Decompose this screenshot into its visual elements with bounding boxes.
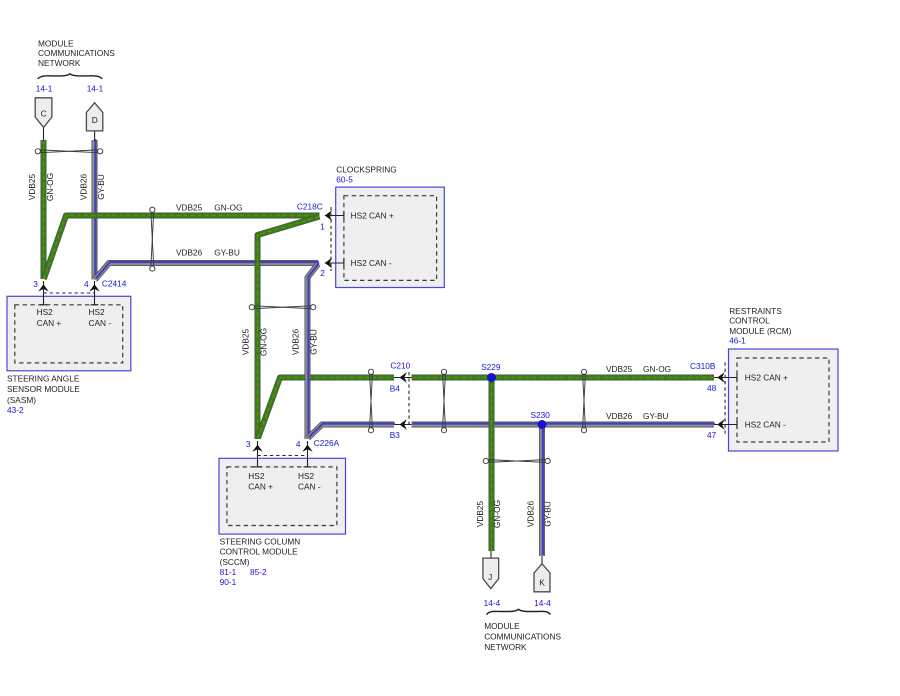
svg-text:C218C: C218C (297, 201, 323, 211)
svg-text:(SCCM): (SCCM) (220, 557, 250, 567)
svg-text:GN-OG: GN-OG (643, 364, 671, 374)
top caption module communications network (38, 39, 115, 69)
svg-text:GY-BU: GY-BU (214, 247, 240, 257)
svg-text:GN-OG: GN-OG (492, 500, 502, 528)
wire VDB26 GY-BU from SCCM pin 4 to C210 pin B3 (308, 424, 395, 438)
wire label VDB25 GN-OG horizontal to RCM (606, 364, 671, 374)
svg-text:HS2 CAN +: HS2 CAN + (351, 210, 394, 220)
module box SASM (7, 296, 131, 371)
svg-text:1: 1 (320, 222, 325, 232)
svg-text:VDB25: VDB25 (606, 364, 633, 374)
wire VDB25 GN-OG from SCCM pin 3 to C210 pin B4 (258, 378, 394, 439)
CLOCKSPRING caption (336, 165, 396, 185)
in-line connector C210 dashed link and label (390, 361, 410, 428)
connector C2414 pin 4 (84, 279, 100, 305)
connector C2414 dashed link and label (44, 278, 127, 293)
RCM caption (729, 306, 791, 346)
wire label VDB26 GY-BU horizontal to RCM (606, 411, 669, 421)
svg-text:C310B: C310B (690, 361, 716, 371)
SCCM caption (220, 537, 301, 587)
connector C218C dashed link and label (297, 201, 331, 271)
svg-text:GN-OG: GN-OG (214, 202, 242, 212)
wire label VDB26 GY-BU vertical to K (525, 500, 552, 527)
svg-text:14-4: 14-4 (484, 598, 501, 608)
svg-text:SENSOR MODULE: SENSOR MODULE (7, 384, 80, 394)
twisted pair symbol left of C210 (368, 369, 373, 433)
svg-text:(SASM): (SASM) (7, 395, 36, 405)
connector C226A dashed link and label (258, 438, 340, 455)
svg-text:C226A: C226A (314, 438, 340, 448)
svg-text:HS2 CAN -: HS2 CAN - (745, 419, 786, 429)
svg-text:C: C (41, 109, 47, 119)
svg-text:B4: B4 (390, 383, 401, 393)
module box SCCM (219, 458, 346, 534)
svg-text:14-4: 14-4 (534, 598, 551, 608)
in-line connector C210 pin B3 (390, 419, 412, 440)
wire label VDB26 GY-BU vertical to SCCM (291, 328, 319, 355)
svg-text:K: K (539, 578, 545, 588)
svg-text:J: J (488, 572, 492, 582)
svg-text:3: 3 (33, 279, 38, 289)
wire label VDB25 GN-OG horizontal to clockspring (176, 202, 242, 212)
svg-text:VDB25: VDB25 (27, 173, 37, 200)
connector J (to module communications network) (483, 551, 501, 608)
svg-text:GN-OG: GN-OG (259, 328, 269, 356)
wire VDB26 GY-BU from connector D to SASM pin 4 (94, 139, 97, 279)
svg-text:43-2: 43-2 (7, 405, 24, 415)
twisted pair symbol on drops to J and K (483, 458, 550, 463)
svg-text:VDB26: VDB26 (291, 328, 301, 355)
svg-text:MODULE: MODULE (38, 39, 74, 49)
svg-text:VDB26: VDB26 (78, 173, 88, 200)
svg-text:CAN +: CAN + (248, 481, 273, 491)
connector C310B pin 48 (707, 372, 737, 393)
svg-text:CONTROL MODULE: CONTROL MODULE (220, 547, 299, 557)
svg-text:14-1: 14-1 (36, 83, 53, 93)
svg-text:MODULE (RCM): MODULE (RCM) (729, 326, 791, 336)
svg-text:CAN -: CAN - (298, 481, 321, 491)
svg-text:HS2 CAN -: HS2 CAN - (351, 258, 392, 268)
wire VDB26 GY-BU from splice S230 down to connector K (541, 424, 544, 556)
svg-text:VDB25: VDB25 (475, 500, 485, 527)
svg-text:GY-BU: GY-BU (643, 411, 669, 421)
svg-text:CAN +: CAN + (37, 318, 62, 328)
svg-text:GN-OG: GN-OG (45, 173, 55, 201)
wire label VDB26 GY-BU horizontal to clockspring (176, 247, 240, 257)
svg-text:VDB26: VDB26 (606, 411, 633, 421)
svg-text:COMMUNICATIONS: COMMUNICATIONS (38, 48, 115, 58)
svg-text:VDB26: VDB26 (176, 247, 203, 257)
svg-text:COMMUNICATIONS: COMMUNICATIONS (484, 631, 561, 641)
svg-text:HS2: HS2 (37, 307, 54, 317)
brace under J and K (487, 609, 551, 614)
twisted pair symbol left horizontal runs (150, 207, 155, 271)
svg-text:14-1: 14-1 (87, 83, 104, 93)
svg-text:HS2 CAN +: HS2 CAN + (745, 372, 788, 382)
wire VDB25 GN-OG from SASM pin 3 to clockspring C218C pin 1 (44, 216, 320, 280)
twisted pair symbol between C210 and S229 (441, 369, 446, 433)
svg-text:48: 48 (707, 383, 717, 393)
svg-text:CLOCKSPRING: CLOCKSPRING (336, 165, 396, 175)
module box RCM (729, 349, 839, 451)
svg-text:VDB25: VDB25 (241, 328, 251, 355)
svg-text:2: 2 (320, 268, 325, 278)
twisted pair symbol top left (35, 149, 103, 154)
svg-text:GY-BU: GY-BU (309, 329, 319, 355)
svg-text:D: D (92, 115, 98, 125)
connector C310B pin 47 (707, 419, 737, 440)
connector D (to module communications network) (86, 83, 103, 141)
svg-text:STEERING COLUMN: STEERING COLUMN (220, 537, 301, 547)
svg-text:STEERING ANGLE: STEERING ANGLE (7, 374, 80, 384)
in-line connector C210 pin B4 (390, 372, 412, 393)
wire VDB25 GN-OG from splice S229 down to connector J (491, 378, 493, 552)
wire VDB25 GN-OG from C218C pin 1 down to SCCM pin 3 (258, 217, 320, 440)
wire label VDB25 GN-OG vertical at C (27, 173, 55, 201)
wire label VDB26 GY-BU vertical at D (78, 173, 106, 200)
svg-text:C2414: C2414 (102, 278, 127, 288)
wire VDB25 GN-OG from C210 pin B4 to RCM C310B pin 48 (412, 377, 715, 379)
svg-text:MODULE: MODULE (484, 621, 520, 631)
connector C (to module communications network) (35, 83, 53, 141)
svg-text:CAN -: CAN - (89, 318, 112, 328)
svg-text:NETWORK: NETWORK (484, 642, 527, 652)
brace over C and D (38, 74, 103, 79)
splice S230 (531, 410, 551, 429)
twisted pair symbol between splices and RCM (581, 369, 586, 433)
svg-text:HS2: HS2 (298, 471, 315, 481)
svg-text:46-1: 46-1 (729, 336, 746, 346)
svg-text:S229: S229 (481, 362, 501, 372)
svg-text:RESTRAINTS: RESTRAINTS (729, 306, 782, 316)
svg-text:NETWORK: NETWORK (38, 58, 81, 68)
connector C2414 pin 3 (33, 279, 48, 305)
wire VDB26 GY-BU from C210 pin B3 to RCM C310B pin 47 (412, 423, 715, 426)
connector C310B dashed link and label (690, 361, 725, 434)
SASM caption (7, 374, 80, 416)
svg-text:47: 47 (707, 430, 717, 440)
bottom caption module communications network (484, 621, 561, 652)
svg-text:CONTROL: CONTROL (729, 316, 770, 326)
svg-text:4: 4 (296, 439, 301, 449)
svg-text:4: 4 (84, 279, 89, 289)
wire VDB26 GY-BU from SASM pin 4 to clockspring C218C pin 2 (95, 262, 319, 279)
wire VDB25 GN-OG from connector C to SASM pin 3 (43, 140, 45, 279)
svg-text:B3: B3 (390, 430, 401, 440)
svg-text:85-2: 85-2 (250, 567, 267, 577)
module box CLOCKSPRING (336, 187, 445, 287)
svg-text:C210: C210 (390, 361, 410, 371)
svg-text:HS2: HS2 (248, 471, 265, 481)
svg-text:S230: S230 (531, 410, 551, 420)
svg-text:GY-BU: GY-BU (96, 174, 106, 200)
twisted pair symbol on SCCM drop wires (249, 305, 316, 310)
wire VDB26 GY-BU from C218C pin 2 down to SCCM pin 4 (308, 263, 319, 439)
svg-text:HS2: HS2 (89, 307, 106, 317)
connector C226A pin 4 (296, 439, 313, 467)
splice S229 (481, 362, 501, 382)
svg-text:3: 3 (246, 439, 251, 449)
wire label VDB25 GN-OG vertical to SCCM (241, 328, 269, 356)
svg-text:60-5: 60-5 (336, 174, 353, 184)
svg-text:GY-BU: GY-BU (543, 501, 553, 527)
svg-text:90-1: 90-1 (220, 577, 237, 587)
connector K (to module communications network) (534, 556, 551, 608)
connector C218C pin 2 (320, 258, 344, 279)
svg-text:VDB25: VDB25 (176, 202, 203, 212)
connector C226A pin 3 (246, 439, 263, 467)
svg-text:VDB26: VDB26 (525, 500, 535, 527)
connector C218C pin 1 (320, 210, 344, 232)
wire label VDB25 GN-OG vertical to J (475, 500, 502, 528)
svg-text:81-1: 81-1 (220, 567, 237, 577)
